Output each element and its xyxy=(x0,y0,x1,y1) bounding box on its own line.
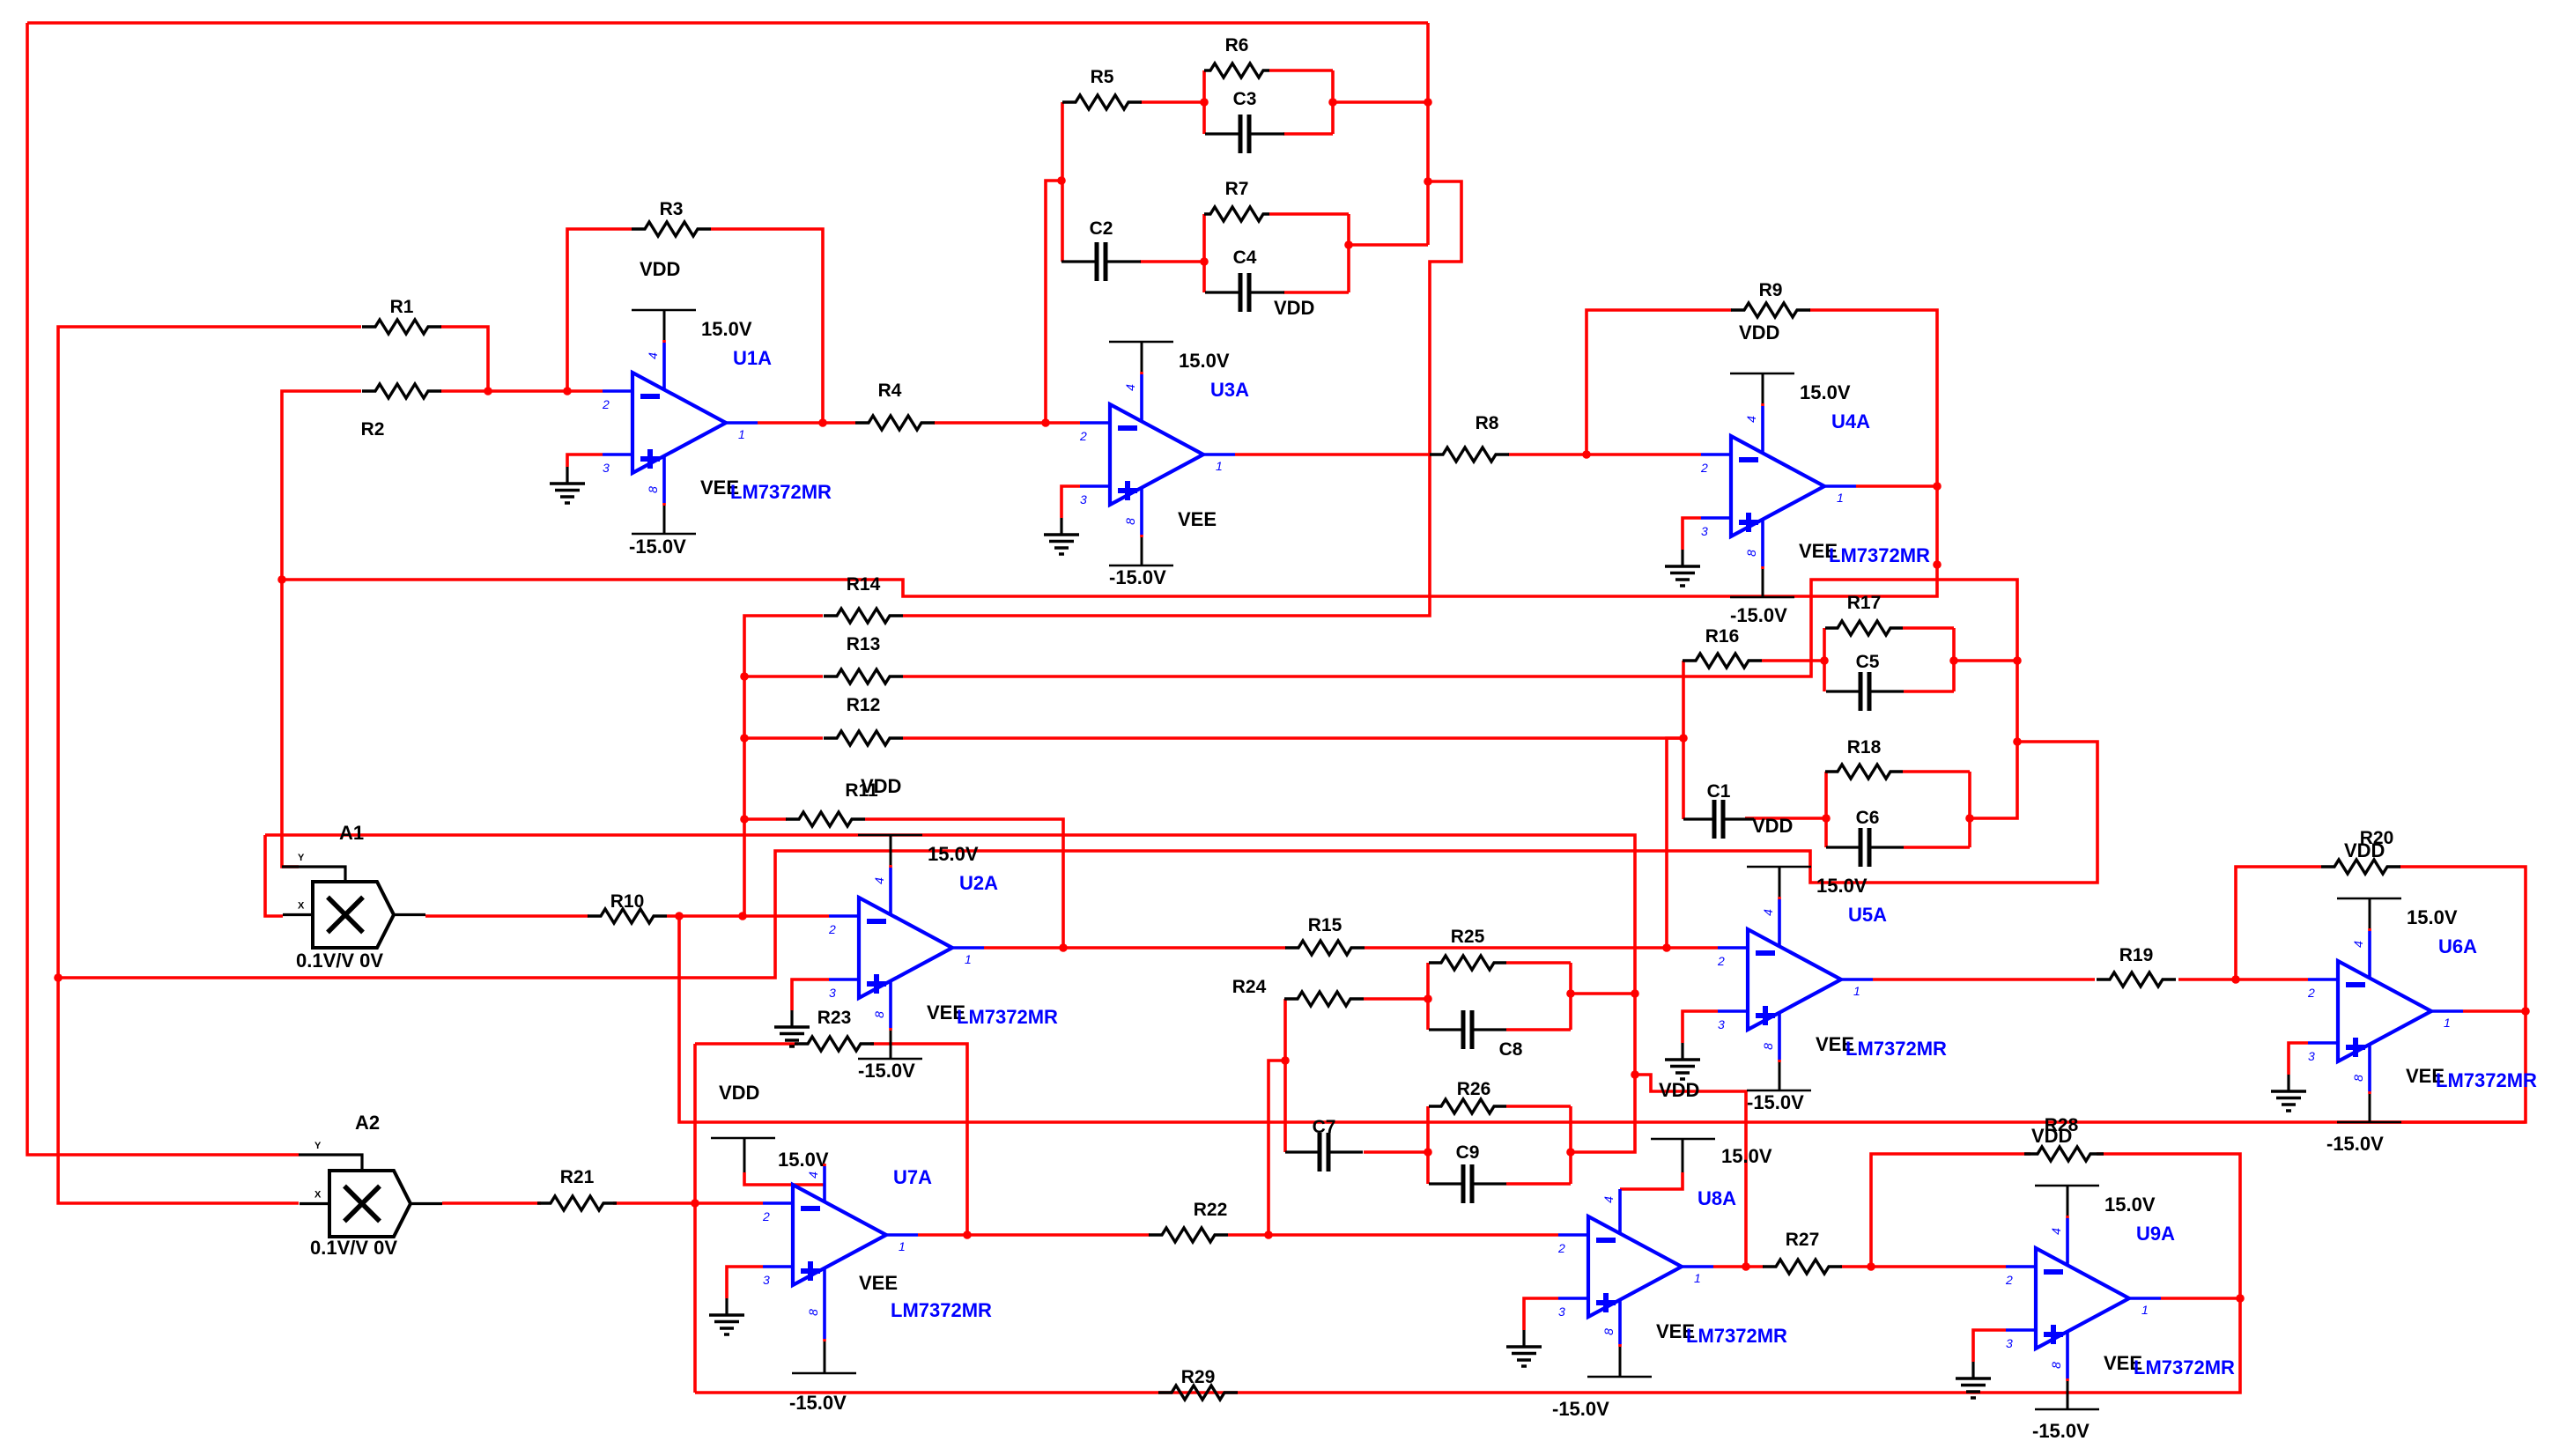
svg-text:R3: R3 xyxy=(660,199,684,219)
wire node A2X to R17/R18 right loop xyxy=(58,742,2097,978)
svg-text:2: 2 xyxy=(1557,1241,1565,1255)
U2A LM7372MR label xyxy=(957,1006,1058,1028)
svg-text:R9: R9 xyxy=(1759,280,1783,300)
svg-text:R5: R5 xyxy=(1091,67,1114,87)
svg-text:3: 3 xyxy=(1080,492,1087,506)
svg-text:8: 8 xyxy=(2351,1075,2365,1082)
ground U2A pin3 xyxy=(774,1010,810,1046)
svg-text:8: 8 xyxy=(1761,1043,1775,1050)
svg-text:3: 3 xyxy=(2006,1336,2013,1350)
node R6C3 left xyxy=(1200,98,1209,107)
U1A pin 8 label xyxy=(646,486,660,493)
svg-text:LM7372MR: LM7372MR xyxy=(2134,1356,2235,1378)
resistor R2 xyxy=(361,384,441,440)
ground U1A pin3 xyxy=(550,467,585,503)
wire R3 left drop xyxy=(567,229,632,391)
wire R27 to U9A pin2 xyxy=(1840,1265,2006,1268)
U7A positive supply symbol xyxy=(711,1138,775,1172)
wire U6A output stub xyxy=(2463,1009,2526,1013)
svg-text:VDD: VDD xyxy=(1274,297,1314,319)
U4A pin 4 label xyxy=(1744,416,1758,423)
resistor R21 xyxy=(537,1167,617,1210)
U7A VEE label xyxy=(859,1272,898,1294)
resistor R16 xyxy=(1683,626,1762,668)
wire R28 right drop xyxy=(2097,1154,2240,1298)
U1A pin 3 label xyxy=(603,461,610,475)
U1A pin 8 negative supply xyxy=(632,456,696,534)
U8A pin 4 label xyxy=(1601,1196,1616,1203)
node R25C8 right xyxy=(1566,989,1575,998)
svg-text:LM7372MR: LM7372MR xyxy=(1829,544,1930,566)
svg-text:2: 2 xyxy=(1717,954,1725,968)
svg-text:VDD: VDD xyxy=(1659,1079,1699,1101)
node U3A pin2 xyxy=(1041,418,1050,427)
svg-text:8: 8 xyxy=(1744,550,1758,557)
resistor R15 xyxy=(1285,915,1365,955)
wire R17C5 right tap xyxy=(1954,659,2017,662)
wire top rail drop xyxy=(1426,23,1430,245)
ground U9A pin3 xyxy=(1956,1362,1991,1398)
U6A +15.0V label xyxy=(2407,906,2458,928)
svg-text:LM7372MR: LM7372MR xyxy=(1845,1038,1947,1060)
U3A pin 8 label xyxy=(1123,518,1137,525)
svg-text:1: 1 xyxy=(1216,459,1223,473)
svg-text:C7: C7 xyxy=(1313,1117,1336,1137)
U1A +15.0V label xyxy=(701,318,752,340)
wire R10 to U2A pin2 xyxy=(667,914,829,918)
svg-text:8: 8 xyxy=(872,1011,886,1018)
U9A pin 8 negative supply xyxy=(2035,1332,2099,1409)
wire U4A pin3 to ground xyxy=(1683,518,1701,550)
resistor R25 xyxy=(1429,927,1506,970)
U7A +15.0V label xyxy=(778,1149,829,1171)
U5A pin 4 positive supply xyxy=(1747,867,1811,946)
U7A LM7372MR label xyxy=(891,1299,992,1321)
op-amp U6A xyxy=(2308,961,2463,1061)
U1A LM7372MR label xyxy=(730,481,832,503)
U8A pin 8 xyxy=(1587,1300,1652,1377)
svg-text:VDD: VDD xyxy=(861,775,901,797)
svg-text:R10: R10 xyxy=(610,891,645,912)
A1 output wire xyxy=(394,913,425,916)
A2 Y input wire xyxy=(299,1141,362,1171)
node R8-R9 xyxy=(1582,450,1591,459)
U2A VEE label xyxy=(927,1001,965,1024)
U7A designator xyxy=(893,1166,932,1188)
resistor R13 xyxy=(824,634,903,684)
svg-text:R7: R7 xyxy=(1225,179,1249,199)
svg-text:Y: Y xyxy=(314,1141,322,1151)
U2A pin 8 label xyxy=(872,1011,886,1018)
U5A pin 4 label xyxy=(1761,909,1775,916)
svg-text:Y: Y xyxy=(298,853,305,863)
wire R6 right xyxy=(1269,69,1333,72)
wire R24 right xyxy=(1364,997,1428,1001)
wire R21 to U7A pin2 xyxy=(613,1201,763,1205)
wire R6C3 right vertical xyxy=(1331,70,1335,134)
U2A pin 3 label xyxy=(829,986,836,1000)
svg-text:8: 8 xyxy=(806,1309,820,1316)
svg-text:2: 2 xyxy=(1700,461,1708,475)
wire R25C8 right vertical xyxy=(1569,963,1572,1030)
U3A pin 2 label xyxy=(1079,429,1087,443)
svg-text:LM7372MR: LM7372MR xyxy=(891,1299,992,1321)
svg-text:VDD: VDD xyxy=(2344,839,2385,861)
U4A pin 4 positive supply xyxy=(1730,373,1794,453)
svg-text:C3: C3 xyxy=(1233,89,1257,109)
wire R11 right drop to U2A output xyxy=(865,819,1063,948)
svg-text:1: 1 xyxy=(1853,984,1860,998)
svg-text:1: 1 xyxy=(1837,491,1844,505)
node R12 left xyxy=(740,734,749,743)
wire A1 out to R10 xyxy=(425,914,588,918)
svg-text:U2A: U2A xyxy=(959,872,998,894)
U8A pin 4 xyxy=(1618,1189,1622,1234)
svg-text:U6A: U6A xyxy=(2438,935,2477,957)
node R2 rail xyxy=(277,575,286,584)
op-amp U2A xyxy=(829,898,984,998)
U7A pin 3 label xyxy=(763,1273,770,1287)
wire C6 right lead xyxy=(1904,846,1970,849)
wire U5A output to R19 xyxy=(1873,978,2095,981)
resistor R17 xyxy=(1825,593,1903,635)
wire R5 right to R6C3 xyxy=(1140,100,1204,104)
svg-text:R24: R24 xyxy=(1232,977,1267,997)
svg-text:R13: R13 xyxy=(847,634,881,654)
U6A pin 1 label xyxy=(2444,1016,2451,1030)
svg-text:-15.0V: -15.0V xyxy=(1747,1091,1804,1113)
svg-text:2: 2 xyxy=(602,397,610,411)
svg-text:VDD: VDD xyxy=(640,258,680,280)
U9A VEE label xyxy=(2104,1352,2142,1374)
svg-text:R1: R1 xyxy=(390,297,414,317)
resistor R27 xyxy=(1763,1230,1842,1274)
wire U3A output to R8 xyxy=(1235,453,1431,456)
node R24-R25C8 xyxy=(1424,994,1432,1003)
resistor R29 xyxy=(1158,1367,1238,1400)
U8A LM7372MR label xyxy=(1686,1325,1787,1347)
svg-text:VEE: VEE xyxy=(859,1272,898,1294)
svg-text:2: 2 xyxy=(2307,986,2315,1000)
node U8A output xyxy=(1742,1262,1750,1271)
svg-text:3: 3 xyxy=(829,986,836,1000)
wire R18C6 right tap xyxy=(1970,742,2017,818)
capacitor C7 xyxy=(1285,1117,1363,1171)
U4A +15.0V label xyxy=(1800,381,1851,403)
node U9A output xyxy=(2236,1294,2245,1303)
U6A pin 4 positive supply xyxy=(2337,898,2401,978)
U7A pin 8 xyxy=(792,1268,856,1373)
svg-text:3: 3 xyxy=(1718,1017,1725,1031)
svg-text:A2: A2 xyxy=(355,1112,380,1134)
wire top rail xyxy=(27,21,1428,25)
U8A VEE label xyxy=(1656,1320,1695,1342)
node R11 drop xyxy=(738,912,747,920)
wire U9A output to R29 loop xyxy=(695,1298,2240,1393)
svg-text:R29: R29 xyxy=(1181,1367,1216,1387)
svg-text:1: 1 xyxy=(2141,1303,2149,1317)
wire R19 to U6A pin2 xyxy=(2178,978,2308,981)
wire R2 left to A1 Y xyxy=(282,391,361,867)
A1 designator xyxy=(339,822,364,844)
multiplier A2 xyxy=(329,1171,411,1237)
wire VDD jog to U8A output xyxy=(1635,1075,1746,1267)
node R17C5 left xyxy=(1820,656,1829,665)
svg-text:R14: R14 xyxy=(847,574,881,595)
wire R7C4 left vertical xyxy=(1202,214,1206,292)
svg-text:1: 1 xyxy=(2444,1016,2451,1030)
capacitor C9 xyxy=(1429,1142,1506,1203)
ground U4A pin3 xyxy=(1665,550,1700,586)
node R11 left xyxy=(740,815,749,824)
wire R9 right drop xyxy=(1809,310,1937,486)
wire R23 left lead xyxy=(695,1042,798,1046)
U4A pin 8 negative supply xyxy=(1730,520,1794,597)
U8A pin 3 label xyxy=(1558,1304,1565,1319)
U3A designator xyxy=(1210,379,1249,401)
U5A LM7372MR label xyxy=(1845,1038,1947,1060)
node R7C4 left xyxy=(1200,257,1209,266)
svg-text:4: 4 xyxy=(646,352,660,359)
wire U2A output to R15 xyxy=(984,946,1286,950)
U5A VEE label xyxy=(1816,1033,1854,1055)
svg-text:2: 2 xyxy=(762,1209,770,1223)
svg-text:1: 1 xyxy=(1694,1271,1701,1285)
U3A pin 4 label xyxy=(1123,384,1137,391)
resistor R7 xyxy=(1204,179,1269,221)
svg-text:8: 8 xyxy=(646,486,660,493)
wire R17C5 right vertical xyxy=(1952,628,1956,691)
resistor R24 xyxy=(1232,977,1364,1006)
ground U5A pin3 xyxy=(1665,1043,1700,1079)
U4A pin 2 label xyxy=(1700,461,1708,475)
svg-text:LM7372MR: LM7372MR xyxy=(2436,1069,2537,1091)
wire R12 node to U5A pin2 xyxy=(1667,738,1683,948)
wire R26C9 left vertical xyxy=(1426,1106,1430,1184)
wire U7A output to R22 xyxy=(918,1233,1150,1237)
resistor R11 xyxy=(786,780,878,826)
U3A +15.0V label xyxy=(1179,350,1230,372)
U6A pin 8 label xyxy=(2351,1075,2365,1082)
svg-text:4: 4 xyxy=(806,1171,820,1179)
node R10 left xyxy=(675,912,684,920)
node top rail C3 xyxy=(1424,98,1432,107)
U2A pin 2 label xyxy=(828,922,836,936)
svg-text:-15.0V: -15.0V xyxy=(2326,1133,2384,1155)
wire R17 right lead xyxy=(1903,626,1954,630)
wire C2 right xyxy=(1140,260,1204,263)
node R17C5 outer xyxy=(2013,656,2022,665)
wire R12 right xyxy=(903,736,1683,740)
wire R25C8 right tap xyxy=(1571,992,1635,995)
wire R16 left drop to C1 xyxy=(1682,661,1685,819)
svg-text:15.0V: 15.0V xyxy=(2104,1194,2156,1216)
U3A pin 4 positive supply xyxy=(1109,342,1173,421)
U6A designator xyxy=(2438,935,2477,957)
wire A2 out to R21 xyxy=(442,1201,541,1205)
net label VDD (U7A box) xyxy=(719,1082,759,1104)
node R1-R2 xyxy=(484,387,492,395)
svg-text:R2: R2 xyxy=(361,419,385,440)
svg-text:U4A: U4A xyxy=(1831,410,1870,432)
U6A pin 2 label xyxy=(2307,986,2315,1000)
net label VDD (R3) xyxy=(640,258,680,280)
svg-text:R12: R12 xyxy=(847,695,881,715)
svg-text:C9: C9 xyxy=(1456,1142,1480,1163)
wire C4 right xyxy=(1283,291,1349,294)
wire R24 left risers xyxy=(1283,999,1287,1152)
svg-text:U5A: U5A xyxy=(1848,904,1887,926)
U1A -15.0V label xyxy=(629,536,686,558)
U9A pin 3 label xyxy=(2006,1336,2013,1350)
svg-text:1: 1 xyxy=(738,427,745,441)
wire R12 left lead xyxy=(744,736,823,740)
wire R24 tap to U8A pin2 xyxy=(1269,1061,1285,1235)
U8A pin 8 label xyxy=(1601,1328,1616,1335)
U7A pin 2 label xyxy=(762,1209,770,1223)
svg-text:4: 4 xyxy=(2049,1228,2063,1235)
svg-text:15.0V: 15.0V xyxy=(1721,1145,1772,1167)
net label VDD (R20) xyxy=(2344,839,2385,861)
ground U3A pin3 xyxy=(1044,518,1079,554)
svg-text:8: 8 xyxy=(1123,518,1137,525)
wire R20 right drop xyxy=(2400,867,2526,1011)
U4A -15.0V label xyxy=(1730,604,1787,626)
wire U3A pin2 riser xyxy=(1046,181,1061,423)
node U7A output xyxy=(963,1231,972,1239)
svg-text:0.1V/V 0V: 0.1V/V 0V xyxy=(310,1237,397,1259)
A2 output wire xyxy=(411,1202,442,1205)
svg-text:8: 8 xyxy=(1601,1328,1616,1335)
U4A pin 8 label xyxy=(1744,550,1758,557)
svg-text:3: 3 xyxy=(2308,1049,2315,1063)
svg-text:15.0V: 15.0V xyxy=(1816,875,1868,897)
svg-text:-15.0V: -15.0V xyxy=(1730,604,1787,626)
wire U4A feedback to R2 node xyxy=(282,565,1937,596)
resistor R20 xyxy=(2321,828,2400,874)
svg-text:8: 8 xyxy=(2049,1362,2063,1369)
multiplier A1 xyxy=(313,882,394,948)
svg-text:U8A: U8A xyxy=(1698,1187,1736,1209)
wire U4A output xyxy=(1856,484,1937,488)
op-amp U3A xyxy=(1080,404,1235,505)
U2A pin 4 label xyxy=(872,877,886,884)
svg-text:4: 4 xyxy=(1744,416,1758,423)
svg-text:C1: C1 xyxy=(1707,781,1731,802)
svg-text:A1: A1 xyxy=(339,822,364,844)
svg-text:4: 4 xyxy=(1123,384,1137,391)
wire R1 right drop xyxy=(440,327,488,391)
U5A pin 2 label xyxy=(1717,954,1725,968)
wire U3A pin3 to ground xyxy=(1061,486,1080,518)
node U1A output xyxy=(818,418,827,427)
wire A1 X feed xyxy=(265,835,1635,1152)
svg-text:R16: R16 xyxy=(1705,626,1740,647)
U2A designator xyxy=(959,872,998,894)
node R22-R24 xyxy=(1264,1231,1273,1239)
svg-text:4: 4 xyxy=(1601,1196,1616,1203)
U9A pin 4 positive supply xyxy=(2035,1186,2099,1265)
U3A pin 3 label xyxy=(1080,492,1087,506)
node U4A fb xyxy=(1933,560,1942,569)
svg-text:C4: C4 xyxy=(1233,248,1257,268)
svg-text:-15.0V: -15.0V xyxy=(858,1060,915,1082)
wire R7 right xyxy=(1269,212,1349,216)
U1A pin 2 label xyxy=(602,397,610,411)
wire R4 to U3A pin2 xyxy=(934,421,1080,425)
U2A pin 4 positive supply xyxy=(858,835,922,914)
net label VDD (R11) xyxy=(861,775,901,797)
wire R28 left riser xyxy=(1871,1154,2030,1267)
svg-text:4: 4 xyxy=(1761,909,1775,916)
net label VDD (R9) xyxy=(1739,322,1779,344)
resistor R22 xyxy=(1149,1200,1228,1242)
svg-text:R17: R17 xyxy=(1847,593,1882,613)
svg-text:R8: R8 xyxy=(1476,413,1499,433)
capacitor C2 xyxy=(1061,218,1141,281)
wire R16 right to R17C5 left xyxy=(1762,659,1824,662)
wire R20 left riser xyxy=(2236,867,2321,979)
op-amp U7A xyxy=(763,1185,918,1285)
U7A pin 8 label xyxy=(806,1309,820,1316)
U2A -15.0V label xyxy=(858,1060,915,1082)
wire R11 left xyxy=(744,817,787,821)
node U6A output xyxy=(2521,1007,2530,1016)
U4A pin 3 label xyxy=(1701,524,1708,538)
wire R6C3 left vertical xyxy=(1202,70,1206,134)
svg-text:VDD: VDD xyxy=(719,1082,759,1104)
U2A pin 1 label xyxy=(965,952,972,966)
op-amp U1A xyxy=(603,373,758,473)
A2 gain label xyxy=(310,1237,397,1259)
U1A pin 4 label xyxy=(646,352,660,359)
resistor R26 xyxy=(1429,1079,1506,1113)
node A2X rail xyxy=(54,973,63,982)
U5A pin 8 label xyxy=(1761,1043,1775,1050)
ground U8A pin3 xyxy=(1506,1330,1542,1366)
svg-text:VEE: VEE xyxy=(1178,508,1217,530)
net label VDD (C1) xyxy=(1752,815,1793,837)
U8A pin 2 label xyxy=(1557,1241,1565,1255)
A2 designator xyxy=(355,1112,380,1134)
U4A VEE label xyxy=(1799,540,1838,562)
U9A pin 2 label xyxy=(2005,1273,2013,1287)
wire C3 right xyxy=(1283,132,1333,136)
net label VDD (C2) xyxy=(1274,297,1314,319)
svg-text:2: 2 xyxy=(1079,429,1087,443)
U7A pin 4 xyxy=(823,1164,826,1202)
svg-text:R22: R22 xyxy=(1194,1200,1228,1220)
node R12-R16 xyxy=(1679,734,1688,743)
wire R5 C2 left riser xyxy=(1061,102,1064,262)
node R13 left xyxy=(740,672,749,681)
U6A pin 8 negative supply xyxy=(2337,1045,2401,1122)
svg-text:15.0V: 15.0V xyxy=(1800,381,1851,403)
wire U6A pin3 to ground xyxy=(2289,1043,2308,1075)
svg-text:C2: C2 xyxy=(1090,218,1113,239)
wire R25C8 left vertical xyxy=(1426,963,1430,1030)
resistor R1 xyxy=(362,297,441,334)
wire R7C4 right tap xyxy=(1349,243,1428,247)
node R6C3 right xyxy=(1328,98,1337,107)
svg-text:R19: R19 xyxy=(2119,945,2154,965)
svg-text:R6: R6 xyxy=(1225,35,1249,55)
resistor R8 xyxy=(1430,413,1509,462)
node R19-R20 xyxy=(2231,975,2240,984)
svg-text:U7A: U7A xyxy=(893,1166,932,1188)
U7A -15.0V label xyxy=(789,1392,847,1414)
svg-text:1: 1 xyxy=(965,952,972,966)
